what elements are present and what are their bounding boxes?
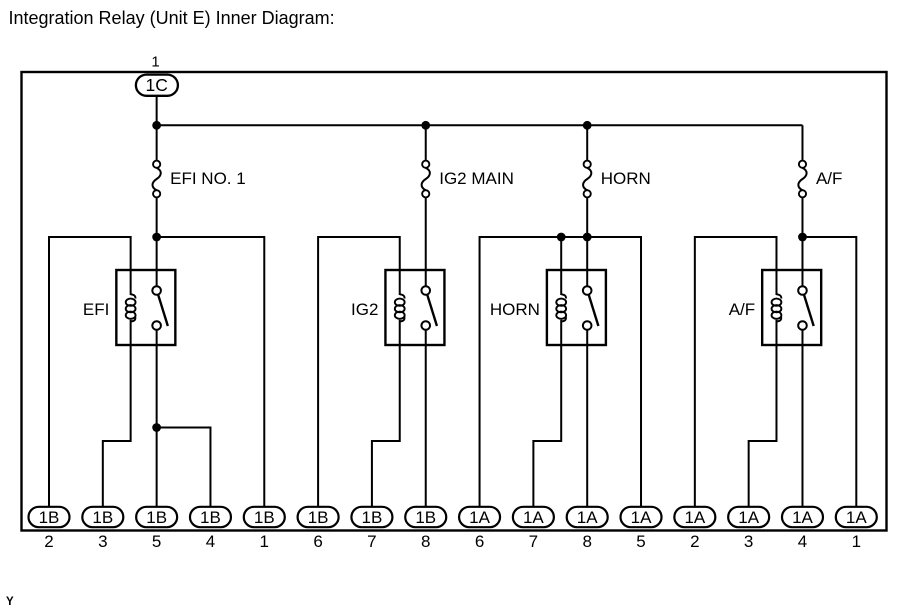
wire from bus down to fuse A/F — [801, 125, 803, 160]
svg-text:1A: 1A — [469, 508, 490, 527]
relay EFI — [116, 270, 175, 345]
svg-text:4: 4 — [798, 532, 807, 551]
wire: A/F coil to terminal 1A-3 (drop, jog left, drop) — [749, 345, 777, 507]
svg-text:1B: 1B — [146, 508, 167, 527]
terminal 1A-5 — [621, 507, 662, 527]
terminal 1A-1 — [836, 507, 877, 527]
terminal 1B-6 — [298, 507, 339, 527]
svg-text:1A: 1A — [523, 508, 544, 527]
svg-text:1: 1 — [151, 54, 159, 71]
svg-text:1A: 1A — [577, 508, 598, 527]
wire from bus down to fuse HORN — [586, 125, 588, 160]
wire: A/F switch to terminal 1A-4 — [801, 345, 803, 507]
svg-text:8: 8 — [582, 532, 591, 551]
junction node EFI branch at distribution wire — [152, 233, 161, 242]
wire from fuse EFI NO. 1 down to relay EFI switch — [156, 197, 158, 270]
wire: IG2 coil feed from terminal 1B-6 (left riser, top run, drop to coil) — [318, 237, 400, 507]
fuse HORN — [583, 161, 591, 198]
fuse A/F — [798, 161, 806, 198]
svg-text:1: 1 — [852, 532, 861, 551]
wire: HORN distribution from terminal 1A-6 to terminal 1A-5 — [480, 237, 641, 507]
terminal 1A-6 — [459, 507, 500, 527]
terminal 1B-8 — [405, 507, 446, 527]
junction node bus/IG2 branch — [421, 121, 430, 130]
wire from fuse IG2 MAIN down to relay IG2 switch — [425, 197, 427, 270]
svg-text:1B: 1B — [308, 508, 329, 527]
relay HORN — [547, 270, 606, 345]
terminal 1B-3 — [82, 507, 123, 527]
svg-text:5: 5 — [636, 532, 645, 551]
wire from bus down to fuse IG2 MAIN — [425, 125, 427, 160]
junction node bus/EFI branch — [152, 121, 161, 130]
svg-text:1B: 1B — [254, 508, 275, 527]
wire from fuse A/F down to relay A/F switch — [801, 197, 803, 270]
junction node EFI switch output — [152, 423, 161, 432]
terminal 1B-2 — [29, 507, 70, 527]
terminal 1B-7 — [351, 507, 392, 527]
svg-text:1C: 1C — [146, 75, 168, 95]
svg-text:Y: Y — [6, 596, 14, 608]
svg-text:5: 5 — [152, 532, 161, 551]
svg-text:1A: 1A — [738, 508, 759, 527]
svg-text:1B: 1B — [415, 508, 436, 527]
terminal 1A-3 — [728, 507, 769, 527]
junction node HORN coil / distribution wire — [557, 233, 566, 242]
svg-text:A/F: A/F — [816, 169, 842, 188]
wire: EFI switch branch to terminal 1B-4 — [157, 428, 211, 507]
wire: IG2 coil to terminal 1B-7 (drop, jog left, drop) — [372, 345, 400, 507]
wire: HORN coil to terminal 1A-7 (drop, jog left, drop) — [533, 345, 561, 507]
wire: EFI switch feed to terminal 1B-1 (top run, right riser) — [157, 237, 265, 507]
wire: IG2 switch to terminal 1B-8 — [425, 345, 427, 507]
svg-text:1A: 1A — [684, 508, 705, 527]
svg-text:1B: 1B — [362, 508, 383, 527]
svg-text:HORN: HORN — [490, 300, 540, 319]
junction node HORN switch branch / distribution wire — [583, 233, 592, 242]
junction node A/F branch at distribution wire — [798, 233, 807, 242]
svg-text:7: 7 — [529, 532, 538, 551]
terminal 1B-4 — [190, 507, 231, 527]
wire: EFI coil to terminal 1B-3 (drop, jog left, drop) — [103, 345, 131, 507]
svg-text:1B: 1B — [92, 508, 113, 527]
junction node bus/HORN branch — [583, 121, 592, 130]
svg-text:1: 1 — [260, 532, 269, 551]
fuse EFI NO. 1 — [153, 161, 161, 198]
wire: EFI switch to terminal 1B-5 — [156, 345, 158, 507]
svg-text:7: 7 — [367, 532, 376, 551]
terminal 1A-8 — [567, 507, 608, 527]
wire from bus down to fuse EFI NO. 1 — [156, 125, 158, 160]
wire: HORN switch to terminal 1A-8 — [586, 345, 588, 507]
wire: EFI coil feed from terminal 1B-2 (left riser, top run, drop to coil) — [49, 237, 131, 507]
supply bus wire (horizontal) — [157, 124, 803, 126]
svg-text:IG2 MAIN: IG2 MAIN — [439, 169, 514, 188]
svg-text:1A: 1A — [792, 508, 813, 527]
svg-text:3: 3 — [98, 532, 107, 551]
wire: HORN coil drop from distribution wire — [560, 237, 562, 270]
relay unit outline box — [22, 72, 887, 531]
terminal 1B-1 — [244, 507, 285, 527]
svg-text:4: 4 — [206, 532, 215, 551]
relay A/F — [762, 270, 821, 345]
svg-text:EFI: EFI — [83, 300, 109, 319]
connector terminal 1C — [136, 75, 178, 96]
wire from terminal 1C down to supply bus — [156, 95, 158, 125]
svg-text:6: 6 — [313, 532, 322, 551]
svg-text:6: 6 — [475, 532, 484, 551]
svg-text:1B: 1B — [200, 508, 221, 527]
terminal 1A-2 — [674, 507, 715, 527]
svg-text:2: 2 — [690, 532, 699, 551]
svg-text:2: 2 — [44, 532, 53, 551]
svg-text:8: 8 — [421, 532, 430, 551]
wire: A/F switch feed to terminal 1A-1 (top run, right riser) — [802, 237, 856, 507]
svg-text:A/F: A/F — [729, 300, 755, 319]
wire from fuse HORN down to relay HORN switch — [586, 197, 588, 270]
svg-text:1B: 1B — [39, 508, 60, 527]
svg-text:1A: 1A — [846, 508, 867, 527]
svg-text:1A: 1A — [631, 508, 652, 527]
wire: A/F coil feed from terminal 1A-2 (left riser, top run, drop to coil) — [695, 237, 777, 507]
relay IG2 — [385, 270, 444, 345]
svg-text:IG2: IG2 — [351, 300, 378, 319]
svg-text:EFI NO. 1: EFI NO. 1 — [170, 169, 246, 188]
svg-text:3: 3 — [744, 532, 753, 551]
svg-text:Integration Relay (Unit E) Inn: Integration Relay (Unit E) Inner Diagram… — [9, 8, 335, 28]
fuse IG2 MAIN — [422, 161, 430, 198]
svg-text:HORN: HORN — [601, 169, 651, 188]
terminal 1B-5 — [136, 507, 177, 527]
terminal 1A-7 — [513, 507, 554, 527]
terminal 1A-4 — [782, 507, 823, 527]
